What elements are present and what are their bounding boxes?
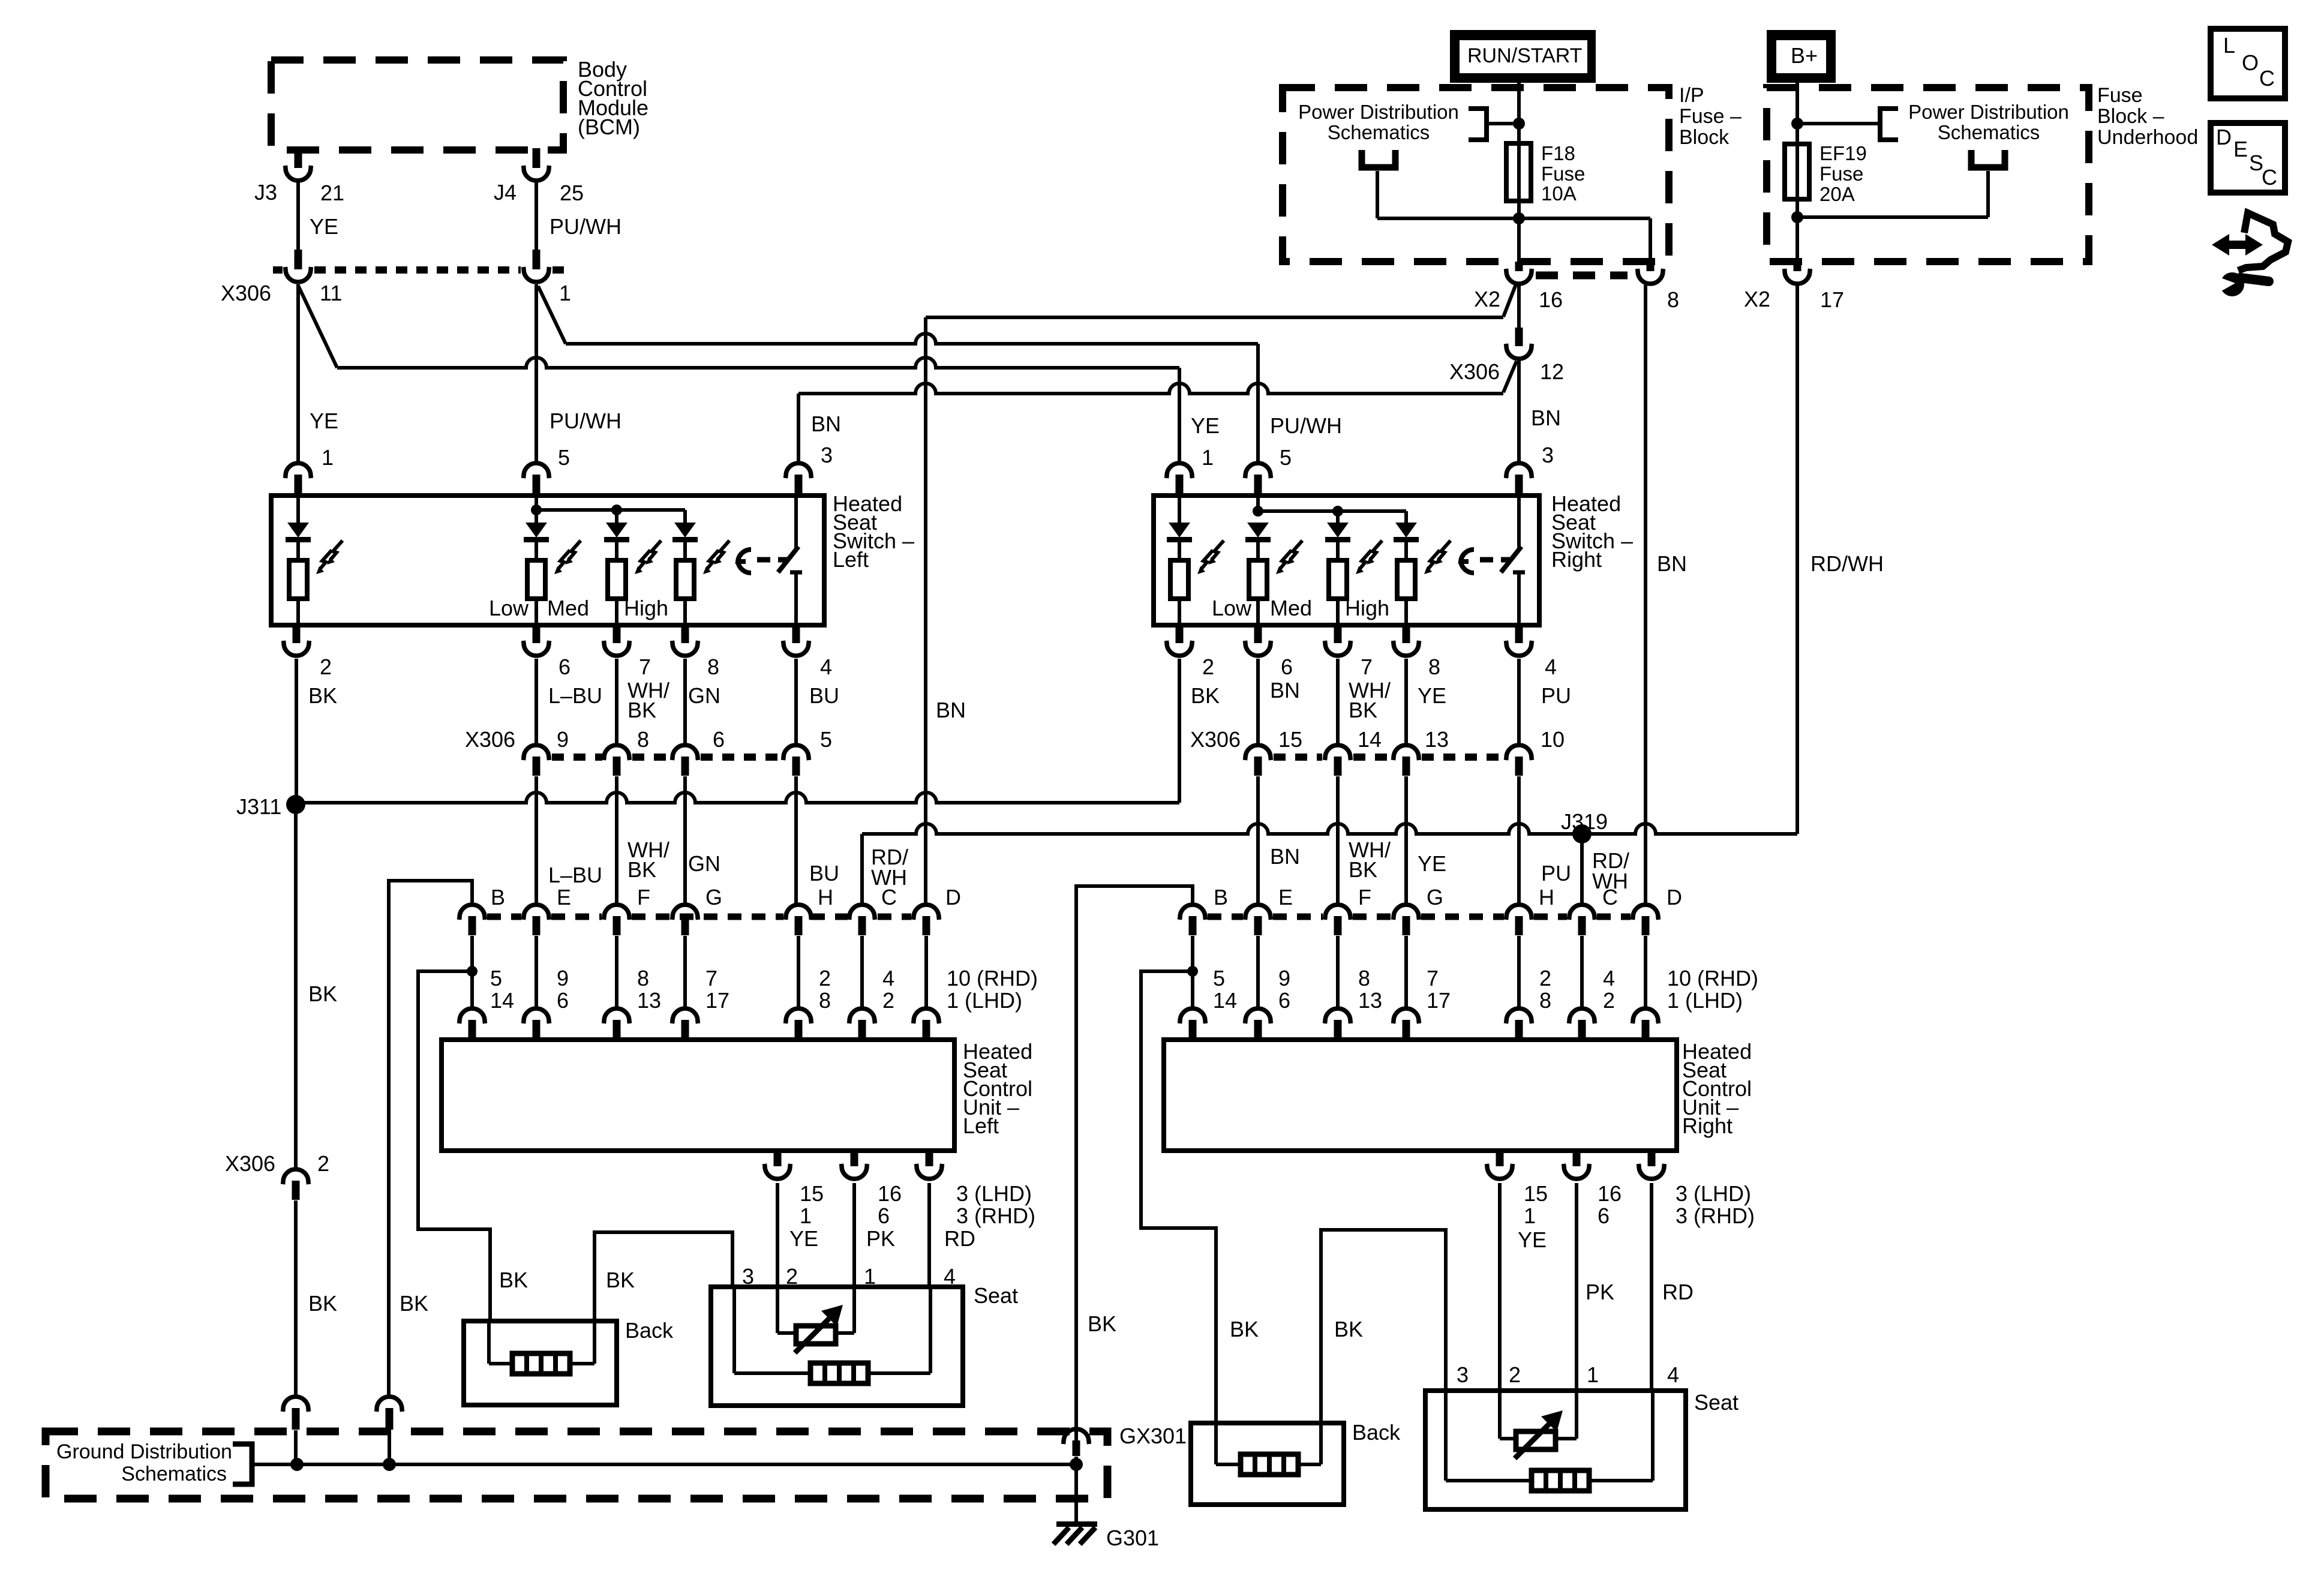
junction ground bus / G301 drop [1070, 1458, 1083, 1471]
wire to right unit [1517, 936, 1521, 1008]
svg-text:L–BU: L–BU [548, 683, 602, 708]
wire branch right to X2-8 [1519, 217, 1650, 220]
svg-text:14: 14 [490, 988, 514, 1013]
wire L-BU pin6 to X306-9 [535, 659, 538, 746]
svg-text:Back: Back [625, 1318, 674, 1343]
junction in underhood fuse block [1791, 118, 1803, 130]
svg-text:20A: 20A [1819, 183, 1855, 205]
wire to left unit [860, 936, 864, 1008]
lead to thermistor (right) [1500, 1437, 1516, 1440]
svg-text:PU/WH: PU/WH [550, 409, 621, 433]
wire BK switch pin2 to J311 [295, 659, 298, 804]
svg-text:BK: BK [499, 1268, 528, 1292]
wire U-bracket stem (underhood) [1986, 171, 1990, 217]
svg-text:BK: BK [627, 857, 656, 882]
svg-text:C: C [1602, 885, 1618, 909]
Heated Seat cushion - right box [1425, 1391, 1686, 1509]
wire PU/WH J4 to X306-1 [535, 182, 538, 251]
wire LED to resistor [683, 542, 687, 560]
Fuse Block Underhood dashed box [1767, 88, 2089, 262]
svg-text:G301: G301 [1106, 1526, 1159, 1550]
svg-text:RUN/START: RUN/START [1467, 44, 1582, 67]
svg-text:10 (RHD): 10 (RHD) [1667, 966, 1758, 990]
svg-text:7: 7 [639, 655, 651, 679]
svg-text:PK: PK [866, 1226, 895, 1251]
connector left unit top [914, 1008, 939, 1039]
wire to right unit [1644, 936, 1647, 1008]
wire PK right unit to seat pin 1 [1575, 1183, 1578, 1391]
svg-text:10A: 10A [1541, 182, 1577, 205]
svg-text:PU/WH: PU/WH [550, 214, 621, 239]
connector switch-left pin 4 [783, 625, 809, 656]
svg-text:YE: YE [1518, 1227, 1547, 1252]
diagonal branch X306-1 to PU/WH bus [538, 286, 566, 344]
resistor under LED low (left switch) [527, 560, 545, 599]
svg-text:B: B [1214, 885, 1228, 909]
wire L-BU X306-9 to unit pin E [535, 776, 538, 906]
switch actuator hook (right) [1461, 550, 1474, 573]
wire RD unit to seat pin 4 [927, 1183, 931, 1287]
junction J311 [286, 795, 305, 814]
connector X306 pin 14 [1325, 745, 1351, 776]
wire [1501, 557, 1511, 563]
wire resistor to box bottom [1256, 599, 1260, 625]
connector unit-left pin E [524, 905, 550, 935]
svg-text:6: 6 [878, 1203, 890, 1228]
LED arrows [703, 541, 729, 574]
connector unit-right pin F [1325, 905, 1351, 935]
svg-text:(BCM): (BCM) [578, 115, 640, 139]
svg-text:BN: BN [1657, 551, 1687, 576]
svg-text:Seat: Seat [1694, 1390, 1739, 1415]
unit connector dashed row (right) [1208, 914, 1243, 920]
svg-text:9: 9 [557, 727, 569, 752]
svg-text:High: High [624, 596, 668, 620]
wire RUN/START into fuse block [1517, 83, 1521, 143]
wire to left unit [615, 936, 618, 1008]
U-bracket under Schematics (underhood) [1971, 150, 2005, 167]
connector switch-right pin 8 [1394, 625, 1419, 656]
wire to right unit [1256, 936, 1260, 1008]
svg-text:Med: Med [1270, 596, 1312, 620]
connector dashed line [632, 754, 671, 761]
RUN/START power feed box [1450, 30, 1596, 83]
wire WH/BK pin7 to X306-14 [1336, 659, 1340, 746]
wire resistor to box bottom [296, 599, 300, 625]
connector left unit top [786, 1008, 812, 1039]
svg-text:9: 9 [1278, 966, 1290, 990]
svg-text:1 (LHD): 1 (LHD) [1667, 988, 1743, 1013]
svg-text:6: 6 [557, 988, 569, 1013]
wire X2-16 to X306-12 [1517, 284, 1521, 329]
svg-text:BK: BK [1349, 857, 1377, 882]
wire WH/BK X306-14 to unit pin F [1336, 776, 1340, 906]
connector dashed line [1353, 754, 1391, 761]
I/P Fuse Block dashed box [1283, 88, 1669, 262]
wire BK left Back to Seat pin 3 [594, 1232, 732, 1321]
wire inside left Back [487, 1321, 491, 1364]
svg-text:2: 2 [317, 1151, 329, 1176]
connector dashed line [878, 914, 911, 920]
svg-text:Low: Low [489, 596, 529, 620]
svg-text:Med: Med [547, 596, 589, 620]
svg-text:21: 21 [320, 181, 344, 205]
X306 inline dashed (pins 9/8/6/5) [552, 754, 602, 761]
junction below EF19 [1791, 211, 1803, 223]
svg-text:Left: Left [833, 547, 869, 572]
connector X2 pin 8 [1638, 262, 1664, 284]
wire to high LED [683, 510, 687, 523]
svg-text:BN: BN [936, 698, 966, 722]
svg-text:2: 2 [1603, 988, 1615, 1013]
wire BK right unit pin B ground loop [1076, 886, 1193, 1442]
connector dashed line [1273, 914, 1323, 920]
connector GX301 (BK from X306-2) [283, 1397, 309, 1430]
wire through fuse EF19 [1795, 144, 1799, 199]
LOC reference box [2211, 29, 2285, 98]
svg-text:5: 5 [558, 445, 570, 470]
connector switch-left pin 8 [672, 625, 698, 656]
connector X306 inline dashed line (pins 11/1) [273, 266, 283, 274]
svg-text:6: 6 [713, 727, 725, 752]
connector unit-left pin 16/6 [842, 1151, 867, 1179]
indicator LED 1 (right switch) [1167, 523, 1192, 542]
connector switch-left pin 6 [524, 625, 550, 656]
LED arrows [1276, 541, 1302, 574]
svg-text:B: B [491, 885, 505, 909]
svg-text:7: 7 [1427, 966, 1439, 990]
wire ground bus [252, 1463, 1076, 1466]
svg-text:PK: PK [1586, 1280, 1614, 1304]
wire YE bus to right switch pin 1 (line B2) [337, 358, 1179, 368]
wire to high LED (right) [1404, 511, 1408, 523]
svg-text:2: 2 [1202, 655, 1214, 679]
wire to left unit [924, 936, 928, 1008]
svg-text:Low: Low [1212, 596, 1252, 620]
connector X306 pin 9 [524, 745, 550, 776]
svg-text:X306: X306 [221, 281, 271, 305]
connector right unit top [1633, 1008, 1659, 1039]
wire BN bus to both switch pin 3 (line C) [798, 383, 1503, 394]
wire to right unit [1580, 936, 1584, 1008]
wire YE unit to seat pin 2 [776, 1183, 779, 1287]
wire branch left below F18 [1377, 217, 1519, 220]
X2 inline connector dashed line [1536, 272, 1628, 280]
wire BN X306-15 to unit pin E [1256, 776, 1260, 906]
svg-text:1: 1 [322, 445, 334, 470]
switch moving contact top (right) [1513, 571, 1525, 575]
LED arrows [1424, 541, 1451, 574]
wire BK J311 down to X306-2 [294, 804, 298, 1170]
LED low (right switch) [1245, 523, 1271, 542]
junction LED med [611, 505, 622, 515]
svg-text:J311: J311 [236, 794, 281, 819]
lead to seat heater (right) [1446, 1479, 1532, 1482]
svg-text:J319: J319 [1561, 809, 1608, 834]
junction below F18 [1513, 212, 1525, 224]
connector switch-right pin 7 [1325, 625, 1351, 656]
wire resistor to box bottom [1404, 599, 1408, 625]
lead from thermistor (right) [1556, 1437, 1577, 1440]
wire to left unit [535, 936, 538, 1008]
resistor under indicator LED 1 (right switch) [1170, 560, 1188, 599]
svg-text:BK: BK [308, 683, 337, 708]
svg-text:H: H [1539, 885, 1554, 909]
svg-text:RD: RD [1662, 1280, 1694, 1304]
wire LED feed bus inside switch [536, 508, 685, 512]
wire YE right unit to seat pin 2 [1498, 1183, 1502, 1391]
wire YE down to right switch pin 1 [1178, 368, 1181, 462]
wire RUN/START feed bus (line A) [926, 316, 1503, 319]
wire seat pin1 inside [852, 1287, 856, 1333]
wire junction to bracket [1487, 122, 1519, 125]
LED high (right switch) [1394, 523, 1419, 542]
svg-text:Seat: Seat [974, 1283, 1018, 1308]
svg-text:2: 2 [320, 655, 332, 679]
wire resistor to box bottom [1336, 599, 1340, 625]
svg-text:BN: BN [811, 412, 841, 436]
connector left unit top [524, 1008, 550, 1039]
wire RD/WH to left unit pin C [860, 834, 864, 906]
resistor under LED high (right switch) [1397, 560, 1415, 599]
wire inside left Back right [593, 1321, 596, 1364]
wire PU/WH down to right switch pin 5 [1256, 344, 1260, 462]
connector dashed line [1353, 914, 1391, 920]
resistor under LED high (left switch) [676, 560, 694, 599]
junction in I/P fuse block [1513, 118, 1525, 130]
wire to right unit [1336, 936, 1340, 1008]
svg-text:BK: BK [400, 1291, 428, 1316]
svg-text:1: 1 [800, 1203, 812, 1228]
wire LED to resistor [1404, 542, 1408, 560]
Heated Seat Back heater - left box [464, 1321, 617, 1405]
switch lead to pin 4 [794, 572, 798, 625]
lead to heater [1216, 1463, 1241, 1466]
heater element left Seat [810, 1363, 868, 1383]
connector dashed line [811, 914, 848, 920]
svg-text:BK: BK [1349, 698, 1377, 722]
connector unit-left pin 3/3 [917, 1151, 942, 1179]
svg-text:D: D [2216, 125, 2232, 149]
connector unit-left pin B [460, 905, 485, 935]
connector X306 pin 15 [1245, 745, 1271, 776]
wire seat pin3 inside (right) [1444, 1391, 1448, 1481]
connector X306 pin 10 [1506, 745, 1532, 776]
connector GX301 (BK from right unit) [1064, 1429, 1089, 1456]
svg-text:3: 3 [1457, 1362, 1469, 1387]
service icon (arrow, outline, wrench) [2212, 213, 2288, 296]
svg-text:17: 17 [1820, 287, 1844, 312]
svg-text:High: High [1345, 596, 1389, 620]
wire BK X306-2 to GX301 [294, 1200, 298, 1395]
wire fuse F18 to X2-16 [1517, 201, 1521, 264]
svg-text:PU: PU [1541, 683, 1571, 708]
connector right unit top [1180, 1008, 1206, 1039]
svg-text:8: 8 [819, 988, 831, 1013]
Heated Seat Back heater - right box [1191, 1423, 1344, 1505]
wire YE X306-11 to switch pin 1 [296, 284, 300, 462]
svg-text:4: 4 [1667, 1362, 1679, 1387]
connector unit-left pin G [672, 905, 698, 935]
connector right unit top [1325, 1008, 1351, 1039]
wire to G301 ground [1074, 1464, 1078, 1523]
lead to heater [489, 1362, 512, 1365]
svg-text:BN: BN [1270, 678, 1300, 703]
wire BK left unit pin B ground loop [389, 881, 472, 1395]
wire inside right switch to LED 1 [1178, 496, 1181, 523]
svg-text:4: 4 [1545, 655, 1557, 679]
svg-text:C: C [2259, 66, 2275, 91]
junction LED low [531, 505, 542, 515]
svg-text:Schematics: Schematics [121, 1463, 227, 1485]
svg-text:Block –: Block – [2097, 105, 2164, 128]
wire to left unit [797, 936, 800, 1008]
svg-text:L–BU: L–BU [548, 863, 602, 887]
wire BN X306-12 to right switch pin 3 [1517, 361, 1521, 462]
svg-text:Fuse: Fuse [2097, 84, 2143, 107]
wire BU X306-5 to unit pin H [794, 776, 798, 906]
lead from heater to pin 4 [868, 1371, 930, 1375]
svg-text:1: 1 [1524, 1203, 1536, 1228]
lead from heater [1298, 1463, 1321, 1466]
LED arrows [635, 541, 661, 574]
svg-text:5: 5 [490, 966, 502, 990]
svg-text:X306: X306 [465, 727, 515, 752]
fuse EF19 20A [1785, 144, 1809, 199]
connector X2 pin 16 [1506, 262, 1532, 284]
connector J3 pin 21 (BCM) [286, 148, 311, 181]
wire BK right Back to Seat pin 3 [1321, 1230, 1446, 1423]
connector switch-right pin 6 [1245, 625, 1271, 656]
svg-text:F18: F18 [1541, 142, 1575, 164]
DESC reference box [2211, 123, 2285, 193]
svg-text:J3: J3 [254, 180, 277, 205]
svg-text:Schematics: Schematics [1328, 121, 1430, 143]
svg-text:BU: BU [809, 683, 839, 708]
svg-text:10: 10 [1541, 727, 1565, 752]
svg-text:11: 11 [320, 281, 342, 305]
wire YE J3 to X306-11 [296, 182, 300, 251]
svg-text:6: 6 [1278, 988, 1290, 1013]
wire PU X306-10 to unit pin H [1517, 776, 1521, 906]
svg-text:8: 8 [1539, 988, 1551, 1013]
svg-text:3 (RHD): 3 (RHD) [1676, 1203, 1755, 1228]
svg-text:X2: X2 [1474, 287, 1500, 311]
svg-text:BK: BK [627, 698, 656, 722]
wire LED to resistor [1178, 542, 1181, 560]
svg-text:6: 6 [559, 655, 571, 679]
switch fixed contact from pin 3 (right) [1517, 496, 1521, 548]
wire YE X306-13 to unit pin G [1404, 776, 1408, 906]
svg-text:6: 6 [1281, 655, 1293, 679]
connector unit-left pin D [914, 905, 939, 935]
svg-text:7: 7 [705, 966, 717, 990]
svg-text:4: 4 [1603, 966, 1615, 990]
connector left unit top [849, 1008, 875, 1039]
resistor under LED low (right switch) [1249, 560, 1267, 599]
svg-text:D: D [1667, 885, 1682, 909]
svg-text:BK: BK [606, 1268, 635, 1292]
connector dashed line [1422, 754, 1503, 761]
svg-text:X306: X306 [225, 1151, 275, 1176]
wire seat pin2 inside [776, 1287, 779, 1333]
wire [1480, 557, 1493, 563]
connector dashed line [553, 266, 568, 274]
connector unit-right pin 16/6 [1564, 1151, 1590, 1179]
connector switch-right pin 3 [1506, 463, 1532, 494]
connector right unit top [1245, 1008, 1271, 1039]
connector unit-right pin B [1180, 905, 1206, 935]
svg-text:L: L [2223, 33, 2235, 58]
wire to ground bus (right) [1074, 1457, 1078, 1464]
junction ground bus / X306-2 drop [290, 1458, 304, 1471]
connector switch-right pin 5 [1245, 463, 1271, 494]
wire to ground bus [294, 1430, 298, 1464]
svg-text:Power Distribution: Power Distribution [1908, 101, 2069, 123]
svg-text:12: 12 [1540, 359, 1564, 384]
svg-text:Right: Right [1551, 547, 1602, 572]
wire PU/WH X306-1 to switch pin 5 [535, 284, 538, 462]
LED arrows [554, 541, 581, 574]
wire seat pin1 inside (right) [1575, 1391, 1578, 1439]
svg-text:Fuse: Fuse [1541, 163, 1585, 185]
wire LED to resistor [1336, 542, 1340, 560]
svg-text:YE: YE [310, 409, 338, 433]
wire LED to resistor [296, 542, 300, 560]
svg-text:13: 13 [637, 988, 661, 1013]
svg-text:15: 15 [1524, 1181, 1548, 1206]
svg-text:5: 5 [1213, 966, 1225, 990]
B+ power feed box [1767, 30, 1836, 83]
lead from thermistor [836, 1331, 854, 1335]
wire LED to resistor [615, 542, 618, 560]
connector X306 pin 2 [283, 1169, 309, 1200]
connector unit-left pin C [849, 905, 875, 935]
svg-text:3 (RHD): 3 (RHD) [956, 1203, 1035, 1228]
svg-text:1: 1 [559, 281, 571, 305]
junction right unit B branch [1187, 966, 1198, 977]
bracket to Power Distribution Schematics (underhood) [1880, 109, 1898, 140]
svg-text:Block: Block [1679, 126, 1730, 149]
ground symbol G301 [1053, 1521, 1097, 1544]
wire PK unit to seat pin 1 [852, 1183, 856, 1287]
lead from heater to pin 4 (right) [1589, 1479, 1653, 1482]
svg-text:17: 17 [705, 988, 729, 1013]
connector X306 pin 8 [604, 745, 630, 776]
lead from heater [570, 1362, 594, 1365]
svg-text:BK: BK [308, 1291, 337, 1316]
connector X2 pin 17 [1785, 262, 1810, 284]
wire BN X2-8 to right unit pin D [1644, 285, 1647, 906]
connector switch-right pin 1 [1167, 463, 1193, 494]
wire to med LED [615, 510, 618, 523]
svg-text:Power Distribution: Power Distribution [1298, 101, 1459, 123]
resistor under LED med (left switch) [608, 560, 626, 599]
svg-text:8: 8 [1428, 655, 1440, 679]
svg-text:BU: BU [809, 861, 839, 885]
wire to med LED (right) [1336, 511, 1340, 523]
svg-text:PU/WH: PU/WH [1270, 413, 1342, 438]
connector X306 pin 11 [286, 250, 311, 282]
svg-text:GX301: GX301 [1119, 1424, 1187, 1448]
wire PU/WH bus to right switch pin 5 (line B) [566, 334, 1258, 344]
svg-text:BK: BK [308, 981, 337, 1006]
svg-text:3: 3 [821, 443, 833, 467]
wire to right unit [1191, 936, 1194, 1008]
heater element left Back [512, 1353, 570, 1374]
svg-text:GN: GN [688, 683, 720, 708]
connector unit-right pin G [1394, 905, 1419, 935]
